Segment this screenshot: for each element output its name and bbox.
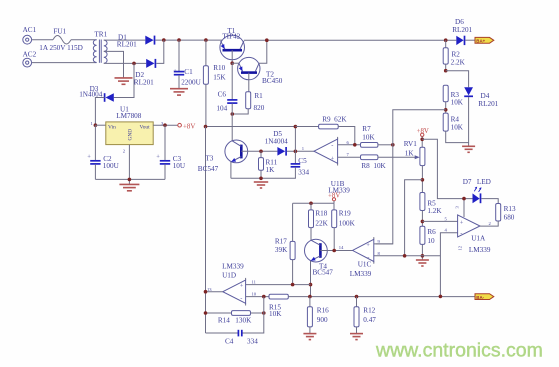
svg-text:680: 680 [504,213,515,221]
junction R18 top [309,202,313,206]
svg-text:39K: 39K [275,246,288,254]
capacitor C6 104 [216,63,237,141]
svg-text:U1D: U1D [222,272,236,280]
svg-text:AC1: AC1 [23,26,37,34]
svg-text:C5: C5 [298,157,307,165]
svg-text:C1: C1 [184,68,193,76]
svg-text:LM339: LM339 [469,246,491,254]
svg-text:+8V: +8V [328,192,340,199]
wire D2 anode to D3 [114,63,134,97]
resistor R3 10K [443,85,464,113]
capacitor C1 2200U [173,40,201,88]
svg-text:+8V: +8V [417,128,429,135]
junction RV1 bottom [421,178,425,182]
svg-text:-: - [460,231,462,238]
svg-text:-: - [331,143,333,150]
junction Vout node [163,123,167,127]
wire RV1 bottom [421,166,423,193]
svg-text:LM339: LM339 [350,270,372,278]
svg-text:104: 104 [216,105,227,113]
wire branch to LED feed [422,139,472,198]
wire T1 base to T2 emitter [232,62,239,64]
svg-text:LM339: LM339 [222,263,244,271]
resistor R5 1.2K [420,193,442,227]
junction R5-R6 node [421,220,425,224]
svg-text:AC2: AC2 [23,51,37,59]
resistor R7 10K [361,125,393,147]
wire U1D inverting to bus [246,296,269,298]
svg-text:900: 900 [317,316,328,324]
regulator U1 LM7808 [106,105,153,144]
wire T3 emitter down [230,162,232,179]
capacitor C4 334 [206,330,259,346]
wire battery minus bus [288,296,475,298]
wire AC1 to fuse [32,39,53,41]
svg-text:+: + [331,155,335,162]
wire top rail right [244,39,456,41]
wire U1C inverting line [374,255,441,257]
svg-text:2.2K: 2.2K [451,59,466,67]
svg-text:RL201: RL201 [478,100,498,108]
resistor R19 100K [332,203,356,250]
svg-text:BC547: BC547 [313,269,334,277]
wire +8V to RV1 and LED branch [421,137,423,148]
resistor R1 820 [232,92,264,114]
junction bus-R12 [355,295,359,299]
svg-text:BC450: BC450 [262,77,283,85]
diode D6 RL201 [452,18,472,45]
node +8V at RV1 [417,128,429,136]
svg-text:R19: R19 [339,210,351,218]
svg-text:334: 334 [247,338,258,346]
junction R9-U1B input [353,143,357,147]
resistor R13 680 [496,204,516,222]
svg-text:BC547: BC547 [198,165,219,173]
svg-text:R7: R7 [362,125,371,133]
junction rail corner R9 [294,125,298,129]
ground (R6) [416,260,429,266]
node BA- flag [475,294,494,300]
svg-text:BA+: BA+ [476,39,485,44]
svg-text:334: 334 [298,169,309,177]
resistor R10 15K [203,40,226,126]
wire U1 GND lead [128,145,130,184]
wire T3 emitter ground line [231,177,296,179]
transistor T1 TIP42 [220,27,245,63]
wire T4 base to U1C output [320,250,352,252]
svg-text:1N4004: 1N4004 [265,138,289,146]
svg-text:+: + [366,242,370,249]
wire U1A non-inverting input [422,220,457,222]
wire U1C noninv input [374,243,393,245]
junction C1-rail [177,38,181,42]
svg-text:D4: D4 [481,92,490,100]
svg-text:LED: LED [477,178,491,186]
junction RV1 branch-U1C [403,254,407,258]
terminal AC2 [23,51,37,67]
svg-text:100U: 100U [103,162,120,170]
diode D1 RL201 [117,33,155,48]
junction T4 emitter-U1D+ [309,283,313,287]
svg-text:Vout: Vout [140,125,151,131]
svg-text:+: + [240,283,244,290]
wire U1A inverting vertical [440,233,457,297]
resistor R6 10 [420,226,436,259]
wire Vin lead [95,124,105,126]
svg-text:+: + [173,68,177,75]
wire R14/C4 right vertical [242,297,264,333]
svg-text:R6: R6 [427,228,436,236]
comparator U1A LM339 [458,215,491,254]
resistor R17 39K [275,203,295,284]
wire U1D output [206,291,223,293]
wire D6 to BA+ [465,39,475,41]
wire T2 collector to rail [259,40,267,63]
ground (T3 emitter) [254,182,268,188]
junction R3-R4 sense node [444,108,448,112]
svg-text:R8 10K: R8 10K [361,162,386,170]
pin 3 U1A V+ [454,199,464,217]
junction R10 bottom [204,125,208,129]
svg-text:10K: 10K [362,134,375,142]
svg-text:U1A: U1A [471,234,486,242]
svg-text:10U: 10U [173,162,186,170]
junction R2-rail [444,38,448,42]
fuse FU1 [39,28,83,52]
wire secondary bottom to D2 [104,62,146,64]
comparator U1B LM339 [314,137,350,194]
wire U1D noninverting line [246,284,311,286]
svg-text:1.2K: 1.2K [427,207,442,215]
diode D3 1N4004 [79,85,114,102]
svg-text:0.47: 0.47 [363,316,376,324]
wire secondary top to D1 [104,39,146,41]
wire long vertical to U1D output [205,127,207,334]
svg-text:10: 10 [252,292,257,297]
svg-text:R14: R14 [218,317,230,325]
junction R2-R3-D4 [444,69,448,73]
junction U1 gnd [128,178,132,182]
svg-text:-: - [240,295,242,302]
junction bus-U1A vertical [439,295,443,299]
wire U1B non-inverting input [338,156,361,158]
svg-text:R13: R13 [504,205,516,213]
svg-text:14: 14 [339,245,344,250]
capacitor C3 10U [156,125,186,179]
svg-text:22K: 22K [315,220,328,228]
wire fuse to TR1 [71,39,97,41]
capacitor C5 334 [291,151,310,178]
svg-text:130K: 130K [235,317,252,325]
transistor T3 BC547 [198,140,248,173]
capacitor C2 100U [87,125,119,179]
svg-text:C4: C4 [225,338,234,346]
ground (R4/D4) [462,146,475,152]
junction R11 top [259,150,263,154]
svg-text:TR1: TR1 [94,30,107,38]
wire D2 to rail riser [156,40,164,63]
svg-text:10K: 10K [269,310,282,318]
wire R17/R18/R19 top rail [293,202,334,204]
svg-text:+: + [87,154,91,161]
wire RV1 bottom to U1C input [405,180,423,256]
svg-text:R12: R12 [363,307,375,315]
svg-text:C6: C6 [218,91,227,99]
svg-text:10: 10 [427,237,435,245]
resistor R11 1K [259,151,278,178]
junction R14 feedback node [262,295,266,299]
junction R10-rail [204,38,208,42]
wire output rail (R10 pull-up net) [206,126,296,128]
junction T1 base node [230,61,234,65]
svg-text:+: + [156,154,160,161]
junction R14 left [204,311,208,315]
svg-text:RL201: RL201 [134,79,154,87]
junction U1D output [204,290,208,294]
wire T3 base line [241,150,277,152]
svg-text:R16: R16 [317,307,329,315]
transformer TR1 [93,30,107,63]
svg-text:GND: GND [128,129,134,141]
wire U1B output riser [294,127,296,152]
wire ground rail under U1 [95,178,165,180]
wire D3 to U1 Vin [95,98,104,126]
svg-text:2200U: 2200U [181,78,201,86]
wire battery sense line [376,110,446,244]
svg-text:1K: 1K [405,149,415,157]
junction +8V branch [420,138,424,142]
wire U1A output [480,221,498,226]
junction C5 node [294,150,298,154]
comparator U1C LM339 [350,237,374,278]
svg-text:RL201: RL201 [117,41,137,49]
node BA+ flag [475,37,494,43]
potentiometer RV1 1K [404,140,425,165]
junction R1-C6 node [231,112,235,116]
svg-text:R18: R18 [315,210,327,218]
LED D7 [463,178,491,203]
resistor R12 0.47 [354,297,376,334]
resistor R18 22K [309,203,329,240]
svg-text:10K: 10K [451,124,464,132]
ground (C1) [170,89,188,95]
wire secondary tap [104,51,124,77]
wire LED to R13 [481,199,498,204]
junction bus-R16 [308,295,312,299]
svg-text:FU1: FU1 [53,28,66,36]
svg-text:RV1: RV1 [404,140,417,148]
wire U1B inverting input [338,144,361,146]
resistor R14 130K [206,311,264,325]
ground (R16) [303,334,316,340]
svg-text:T3: T3 [205,155,213,163]
svg-text:1A 250V 115D: 1A 250V 115D [39,44,83,52]
svg-text:+8V: +8V [183,123,195,130]
resistor R15 10K [269,294,288,318]
svg-text:R9 62K: R9 62K [322,116,347,124]
resistor R9 62K [295,116,354,145]
transistor T4 BC547 [305,239,334,277]
junction R17-U1D+ [291,283,295,287]
wire D5 to U1B output [287,150,314,152]
junction R11 ground node [259,177,263,181]
resistor R4 10K [443,113,468,146]
svg-text:100K: 100K [339,220,356,228]
svg-text:R4: R4 [451,116,460,124]
svg-text:www.cntronics.com: www.cntronics.com [375,340,543,362]
junction T2-rail [265,38,269,42]
junction R6 bottom [421,254,425,258]
wire T4 emitter down [310,261,312,297]
resistor R2 2.2K [443,40,465,70]
wire top rail left [155,39,222,41]
svg-text:15K: 15K [213,73,226,81]
terminal AC1 [23,26,37,44]
svg-text:10K: 10K [451,99,464,107]
svg-text:820: 820 [254,104,265,112]
transistor T2 BC450 [238,57,283,91]
junction R7-sense vertical [391,143,395,147]
node +8V at R19 [328,192,340,203]
svg-text:R17: R17 [275,237,287,245]
junction D3 branch [132,62,136,66]
ground (transformer tap) [115,78,133,84]
svg-text:R10: R10 [213,64,225,72]
junction R19-T4 base [332,249,336,253]
svg-text:TIP42: TIP42 [222,33,240,41]
junction D2-rail [162,38,166,42]
svg-text:1K: 1K [266,166,276,174]
svg-text:Vin: Vin [108,125,116,131]
node +8V output terminal [178,123,196,130]
junction LED line V+ [462,197,466,201]
svg-text:R2: R2 [452,50,461,58]
wire AC2 to TR1 [32,62,97,64]
svg-text:12: 12 [458,245,463,250]
junction R14 right [262,311,266,315]
diode D4 RL201 [464,87,498,142]
svg-text:R1: R1 [254,92,263,100]
resistor R8 10K [361,155,420,170]
svg-text:BA-: BA- [476,295,484,300]
wire Vout lead [153,124,178,126]
wire branch to D4 [446,71,469,88]
comparator U1D LM339 [222,263,246,306]
svg-text:11: 11 [252,280,257,285]
svg-text:U1C: U1C [358,261,372,269]
svg-text:LM7808: LM7808 [116,112,142,120]
diode D2 RL201 [134,59,156,87]
diode D5 1N4004 [265,130,289,156]
resistor R16 900 [307,297,329,334]
svg-text:+: + [460,219,464,226]
svg-text:D7: D7 [463,178,472,186]
svg-text:RL201: RL201 [452,26,472,34]
ground (R12) [350,334,363,340]
junction Vin node [94,123,98,127]
ground (U1) [119,184,139,190]
